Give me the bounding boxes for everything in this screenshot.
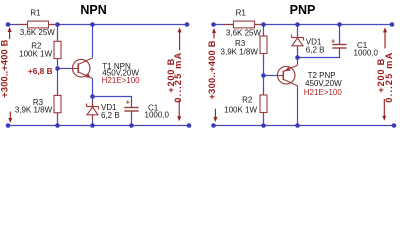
lead R3 bottom (57, 113, 59, 123)
wire emitter of T1 to node A (92, 78, 94, 125)
zener diode VD1 6,2 V (PNP circuit) (292, 35, 325, 55)
wire R3-R2 divider column PNP (263, 25, 265, 126)
wire node A to C1 top (93, 97, 132, 108)
wire collector of T1 to top rail (92, 25, 94, 58)
resistor R2 (100K 1W) (19, 41, 61, 58)
svg-text:100K 1W: 100K 1W (19, 49, 52, 58)
svg-text:6,2 В: 6,2 В (101, 111, 120, 120)
resistor R2 PNP (100K 1W) (224, 95, 267, 115)
node base divider junction NPN (+6,8 V) (55, 66, 60, 71)
svg-text:R2: R2 (242, 96, 253, 105)
transistor T2 PNP 450V 20W (277, 65, 342, 97)
wire bottom rail NPN (common return) (8, 125, 189, 127)
node input terminal NPN top left (6, 22, 11, 27)
svg-text:+300..+400 В: +300..+400 В (0, 39, 10, 97)
annotation input voltage +300..+400 V (NPN) with arrows (0, 27, 12, 123)
node ground terminal NPN bottom right (187, 123, 192, 128)
node base divider junction PNP (261, 73, 266, 78)
svg-text:6,2 В: 6,2 В (306, 45, 325, 54)
annotation output +200 V 0...25 mA (NPN) with arrows (166, 27, 183, 121)
node ground terminal PNP bottom right (392, 123, 397, 128)
node ground terminal NPN bottom left (6, 123, 11, 128)
svg-text:100K 1W: 100K 1W (224, 106, 257, 115)
svg-text:NPN: NPN (80, 3, 106, 17)
wire emitter of T2 to node B (297, 25, 299, 65)
resistor R3 (3,9K 1/8W) (15, 95, 61, 114)
node collector junction on top rail NPN (90, 22, 95, 27)
wire top rail NPN (input +300..+400 V bus) (8, 24, 187, 26)
annotation input voltage +300..+400 V (PNP) with arrows (207, 28, 218, 122)
lead R3 top (57, 86, 59, 96)
svg-text:3,6K 25W: 3,6K 25W (226, 29, 262, 38)
resistor R1 (3,6K 25W) (20, 8, 56, 37)
node R2 ground junction PNP (261, 123, 266, 128)
svg-text:3,9K 1/8W: 3,9K 1/8W (15, 105, 53, 114)
capacitor C1 1000,0 uF polarized (NPN circuit) (124, 97, 169, 119)
lead R2 top (57, 32, 59, 42)
svg-text:450V,20W: 450V,20W (305, 79, 342, 88)
node ground terminal PNP bottom left (211, 123, 216, 128)
node C1 ground junction NPN (129, 123, 134, 128)
svg-text:PNP: PNP (290, 3, 316, 17)
lead C1 bottom (131, 111, 133, 118)
resistor R1 PNP (3,6K 25W) (226, 9, 262, 38)
wire top rail PNP (input +300..+400 V bus) (214, 24, 393, 26)
zener diode VD1 6,2 V (NPN circuit) (87, 103, 120, 120)
wire base of T1 (58, 68, 74, 70)
node output terminal NPN top right (185, 22, 190, 27)
svg-text:+: + (126, 97, 131, 106)
svg-text:R1: R1 (236, 9, 247, 18)
wire base of T2 (264, 75, 279, 77)
node R2 tap on top rail NPN (55, 22, 60, 27)
lead R1 PNP right (255, 24, 263, 26)
svg-text:0...25 mA: 0...25 mA (384, 52, 394, 102)
node R3 tap on top rail PNP (261, 22, 266, 27)
svg-text:H21E>100: H21E>100 (304, 88, 343, 97)
node C1 junction on top rail PNP (337, 22, 342, 27)
annotation output +200 V 0...25 mA (PNP) with arrows (376, 27, 394, 120)
svg-text:+: + (331, 36, 336, 45)
lead R3 PNP bottom (263, 54, 265, 64)
lead R2 PNP bottom (263, 113, 265, 123)
svg-text:3,6K 25W: 3,6K 25W (20, 28, 56, 37)
node A emitter-zener-C1 junction NPN (90, 94, 95, 99)
lead R1 right (49, 24, 57, 26)
svg-text:0...25 mA: 0...25 mA (173, 52, 183, 102)
svg-text:H21E>100: H21E>100 (102, 76, 141, 85)
transistor T1 NPN 450V 20W (72, 58, 140, 85)
node input terminal PNP top left (211, 22, 216, 27)
wire bottom rail PNP (common return) (214, 125, 395, 127)
lead VD1 PNP anode (297, 46, 299, 52)
node VD1 junction on top rail PNP (295, 22, 300, 27)
lead C1 top (131, 100, 133, 108)
wire C1 bottom to rail (131, 111, 133, 126)
node output terminal PNP top right (390, 22, 395, 27)
lead C1 PNP top (339, 32, 341, 45)
node VD1 ground junction NPN (90, 123, 95, 128)
lead VD1 cathode (92, 102, 94, 107)
svg-text:+6,8 В: +6,8 В (28, 66, 53, 76)
wire collector of T2 to bottom rail (297, 86, 299, 126)
lead R2 PNP top (263, 86, 265, 96)
svg-text:+300..+400 В: +300..+400 В (207, 40, 217, 99)
node R3 ground junction NPN (55, 123, 60, 128)
lead R1 PNP left (224, 24, 234, 26)
lead VD1 anode (92, 115, 94, 120)
node B emitter-zener-C1 junction PNP (295, 55, 300, 60)
svg-text:1000,0: 1000,0 (145, 111, 170, 120)
svg-text:R1: R1 (30, 8, 41, 17)
lead R2 bottom (57, 59, 59, 67)
lead R3 PNP top (263, 31, 265, 37)
wire C1 top to rail (339, 25, 341, 45)
resistor R3 PNP (3,9K 1/8W) (221, 36, 267, 57)
capacitor C1 1000,0 uF polarized (PNP circuit) (331, 36, 379, 57)
lead R1 left (18, 24, 28, 26)
lead VD1 PNP cathode (297, 29, 299, 38)
node collector ground junction PNP (295, 123, 300, 128)
wire node B to C1 bottom (298, 48, 340, 58)
lead C1 PNP bottom (339, 48, 341, 54)
svg-text:R3: R3 (235, 39, 246, 48)
svg-text:3,9K 1/8W: 3,9K 1/8W (221, 48, 259, 57)
svg-text:1000,0: 1000,0 (354, 48, 379, 57)
wire R2-R3 divider column NPN (57, 25, 59, 126)
